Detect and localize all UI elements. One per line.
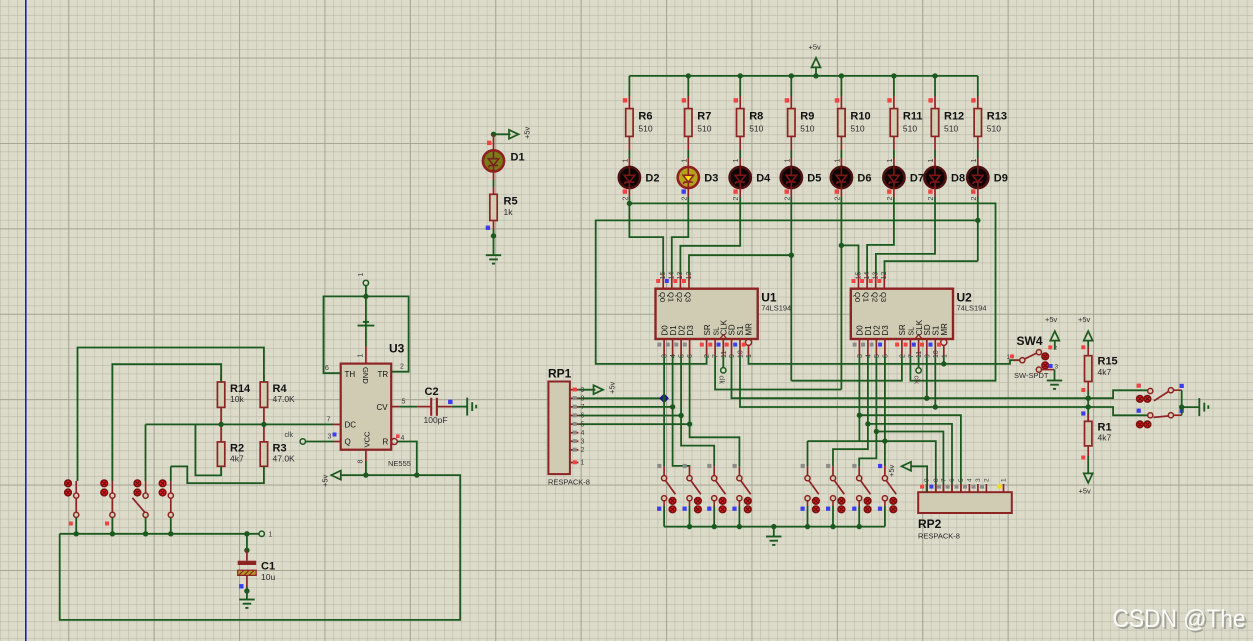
U1 pin label Q3 <box>684 292 693 302</box>
resistor R1 4k7 <box>1085 421 1092 446</box>
U3 pin 4 marker <box>396 434 400 438</box>
svg-text:100pF: 100pF <box>424 415 448 425</box>
svg-text:7: 7 <box>941 478 948 482</box>
node 1 label (bus end) <box>269 532 273 539</box>
node clk (U1 pin 11) <box>721 368 726 373</box>
wire SW4 to ground <box>1054 370 1056 381</box>
U1 pin 7 stub <box>714 339 716 356</box>
svg-text:D8: D8 <box>951 173 965 185</box>
R8 bottom lead <box>739 136 741 150</box>
junction node-1 bus x=76.2 <box>74 531 79 536</box>
U2 pin 14 stub <box>866 274 868 288</box>
D6 pin 2 label <box>834 197 841 201</box>
U2 pin 6 stub <box>884 339 886 356</box>
RP1 pin number 9 <box>581 387 585 394</box>
D9 pin 1 label <box>971 159 978 163</box>
switch SW-L3 wire to bus <box>145 518 147 534</box>
U3 Q pin stub <box>334 441 341 443</box>
U2 pin 10 stub <box>934 339 936 356</box>
svg-text:+5v: +5v <box>1045 315 1058 324</box>
wire bus to R8 <box>739 76 741 96</box>
RP1 pin 6 marker <box>573 413 577 417</box>
R7 bottom lead <box>687 136 689 150</box>
SW4 throw 3 lead <box>1039 369 1055 371</box>
D8 pin 1 label <box>928 159 935 163</box>
switch SW-A3 contact a <box>719 498 726 505</box>
junction D6 net <box>839 243 844 248</box>
D6 pin marker <box>835 189 839 193</box>
D1 label <box>511 152 525 164</box>
junction TH TR node <box>363 294 368 299</box>
IC U2 74LS194 body <box>851 289 953 339</box>
clk net label (U1) <box>717 376 724 385</box>
switch SW-B3 pole <box>857 476 862 481</box>
U3 pin number 3 <box>328 434 332 441</box>
power terminal +5v (below R1) <box>1084 473 1093 483</box>
D3 cathode stub <box>687 188 689 197</box>
wire R pin to +5v rail <box>397 442 417 476</box>
svg-text:3: 3 <box>975 478 982 482</box>
wire branch to switch SW-B1 <box>807 441 809 466</box>
U1 pin 12 stub <box>688 274 690 288</box>
U1 pin 15 stub <box>662 274 664 288</box>
U1 pin 14 stub <box>671 274 673 288</box>
svg-text:VCC: VCC <box>362 431 371 448</box>
wire U1 CLK stub <box>722 356 724 368</box>
svg-text:D7: D7 <box>910 173 924 185</box>
svg-text:2: 2 <box>733 197 740 201</box>
switch SW-B4 pole <box>882 476 887 481</box>
switch SW-A3 pole <box>712 476 717 481</box>
svg-text:4: 4 <box>670 354 677 358</box>
svg-text:R13: R13 <box>987 111 1007 123</box>
wire D8 to U2 pin 13 <box>876 197 935 274</box>
ground symbol (C1) <box>239 600 255 608</box>
U2 pin label MR <box>940 323 949 336</box>
svg-text:D3: D3 <box>704 173 718 185</box>
junction R4-R3 node on DC wire <box>261 422 266 427</box>
+5v label (SW4) <box>1045 315 1058 324</box>
D7 pin marker <box>887 189 891 193</box>
switch SW-C2 throw <box>1168 413 1173 418</box>
wire bus to R13 <box>977 76 979 96</box>
svg-text:7: 7 <box>327 417 331 424</box>
U3 pin label GND (rotated) <box>361 367 370 384</box>
svg-text:9: 9 <box>729 354 736 358</box>
U1 pin 9 marker <box>725 343 729 347</box>
U1 pin 6 stub <box>689 339 691 356</box>
wire D2 to U1 pin 15 <box>629 203 663 274</box>
wire top +5v bus <box>629 75 977 77</box>
U1 pin 1 marker <box>742 343 746 347</box>
wire node to TH pin 6 <box>324 296 366 373</box>
D9 pin 2 label <box>971 197 978 201</box>
switch SW-B1 throw <box>805 496 810 501</box>
R9 value 510 <box>800 124 814 134</box>
D6 label <box>857 173 871 185</box>
RP2 pin 1 stub <box>1003 484 1005 492</box>
RP1 pin 1 marker <box>573 460 577 464</box>
wire bus to ground stub <box>773 527 775 537</box>
wire R5 to ground <box>493 230 495 256</box>
switch SW-L4 throw <box>168 512 173 517</box>
svg-text:R11: R11 <box>903 111 923 123</box>
wire U2 SD stub <box>926 356 928 398</box>
switch SW-L2 pole <box>110 493 115 498</box>
U2 pin label D1 <box>864 325 873 336</box>
junction S1 at R1 <box>1086 404 1091 409</box>
RP1 part label RESPACK-8 <box>548 478 590 487</box>
switch SW-B1 top stub <box>807 466 809 476</box>
D3 pin 2 label <box>681 197 688 201</box>
U2 pin label D0 <box>856 325 865 336</box>
svg-text:R12: R12 <box>944 111 964 123</box>
svg-text:5: 5 <box>679 354 686 358</box>
svg-text:R8: R8 <box>749 111 763 123</box>
wire junction to output terminal <box>1182 406 1200 408</box>
wire D2 net to right side <box>629 203 995 380</box>
junction R14-R2 node on DC wire <box>218 422 223 427</box>
R4 label <box>273 383 288 395</box>
U1 pin 2 stub <box>706 339 708 356</box>
RP1 pin 2 marker <box>573 448 577 452</box>
power terminal +5v (RP2) <box>902 462 912 471</box>
switch SW-A4 bottom marker <box>732 507 736 511</box>
U2 pin 14 marker <box>860 279 864 283</box>
wire D9 to U2 pin 12 <box>885 261 978 274</box>
svg-text:6: 6 <box>325 365 329 372</box>
SW4 throw circle <box>1036 350 1041 355</box>
U1 pin 13 stub <box>679 274 681 288</box>
svg-text:D3: D3 <box>881 325 890 336</box>
svg-text:74LS194: 74LS194 <box>761 304 791 313</box>
switch SW-C1 contact a <box>1137 396 1144 403</box>
U3 pin number 5 <box>402 399 406 406</box>
U1 pin label Q1 <box>666 292 675 302</box>
R1 value 4k7 <box>1098 433 1112 443</box>
svg-text:8: 8 <box>933 478 940 482</box>
D5 pin 1 label <box>784 159 791 163</box>
U2 pin number 11 <box>916 351 923 358</box>
R10 bottom lead <box>840 136 842 150</box>
switch SW-L2 marker <box>105 522 109 526</box>
wire U1 D0 to switch SW-A1 <box>663 356 665 466</box>
U3 pin number 7 <box>327 417 331 424</box>
svg-text:1k: 1k <box>504 207 514 217</box>
U2 pin 2 marker <box>895 343 899 347</box>
switch SW-L4 contact b <box>159 489 166 496</box>
wire +5v to RP2 pin 9 <box>911 466 927 492</box>
RP2 pin 5 marker <box>955 485 959 489</box>
svg-text:1: 1 <box>971 159 978 163</box>
switch SW-L4 contact a <box>159 480 166 487</box>
RP2 part label RESPACK-8 <box>918 532 960 541</box>
svg-text:2: 2 <box>834 197 841 201</box>
LED D9 (red, off) <box>967 167 988 188</box>
U1 pin 12 marker <box>682 279 686 283</box>
RP1 label <box>548 367 572 381</box>
switch SW-A4 pole <box>737 476 742 481</box>
junction mid bus x=714.2 <box>712 524 717 529</box>
switch SW-A1 bottom marker <box>657 507 661 511</box>
wire U2 D1 to switch SW-B2 <box>833 424 868 466</box>
svg-text:510: 510 <box>697 124 711 134</box>
U2 pin 12 marker <box>877 279 881 283</box>
RP1 pin 8 marker <box>573 396 577 400</box>
wire U2 D1 vertical <box>867 356 869 424</box>
capacitor C1 plate top <box>238 561 257 565</box>
switch SW-B3 top pin marker <box>852 464 856 468</box>
junction U1 D3 net <box>687 421 692 426</box>
switch SW-B3 wire to bus <box>858 506 860 527</box>
SW4 part label SW-SPDT <box>1014 371 1049 380</box>
RP2 pin 4 stub <box>968 484 970 492</box>
switch SW-A1 bottom stub <box>663 501 665 506</box>
svg-text:+5v: +5v <box>608 381 617 394</box>
U1 pin 3 marker <box>657 343 661 347</box>
U2 pin 10 marker <box>929 343 933 347</box>
R6 top pin stub <box>628 96 630 109</box>
R13 label <box>987 111 1007 123</box>
R2 label <box>230 443 244 455</box>
D2 label <box>645 173 659 185</box>
R13 top pin stub <box>977 96 979 109</box>
LED D8 (red, off) <box>924 167 945 188</box>
U1 pin number 5 <box>679 354 686 358</box>
U2 pin number 13 <box>873 272 880 280</box>
D5 label <box>807 173 821 185</box>
U3 pin 1 stub <box>365 347 367 364</box>
svg-text:RESPACK-8: RESPACK-8 <box>918 532 960 541</box>
U1 pin number 1 <box>746 354 753 358</box>
R5 value 1k <box>504 207 514 217</box>
svg-text:2: 2 <box>704 354 711 358</box>
wire bus to R12 <box>934 76 936 96</box>
wire DC branch down to SW-L3 <box>145 424 147 481</box>
R9 pin marker <box>785 98 789 102</box>
U1 pin 9 stub <box>731 339 733 356</box>
U3 pin label R <box>383 438 389 447</box>
svg-text:1: 1 <box>733 159 740 163</box>
wire RP1 pin 9 to +5v <box>578 389 595 391</box>
svg-text:SW-SPDT: SW-SPDT <box>1014 371 1049 380</box>
R10 value 510 <box>850 124 864 134</box>
RP2 pin 4 marker <box>963 485 967 489</box>
switch SW-B4 lever <box>886 480 896 494</box>
U2 pin label Q2 <box>870 292 879 302</box>
wire D7 to U2 pin 14 <box>867 197 894 274</box>
D3 label <box>704 173 718 185</box>
power terminal +5v (D1) <box>509 130 519 139</box>
D8 cathode stub <box>934 188 936 197</box>
resistor R8 510 <box>737 109 744 137</box>
U2 label <box>957 291 973 305</box>
switch SW-L1 contact b <box>65 489 72 496</box>
RP2 pin 9 marker <box>920 485 924 489</box>
D2 cathode stub <box>628 188 630 197</box>
switch SW-A3 bottom stub <box>713 501 715 506</box>
switch SW-B3 throw <box>857 496 862 501</box>
svg-text:D4: D4 <box>756 173 771 185</box>
D5 pin marker <box>785 189 789 193</box>
svg-text:Q1: Q1 <box>862 292 871 302</box>
svg-text:clk: clk <box>913 376 920 385</box>
U2 pin 11 stub <box>918 339 920 356</box>
power terminal +5v (RP1) <box>594 385 604 394</box>
U1 pin number 11 <box>721 351 728 358</box>
switch SW-B3 contact a <box>864 498 871 505</box>
RP2 pin number 4 <box>967 478 974 482</box>
switch SW-C1 pole <box>1148 388 1153 393</box>
R5 label <box>504 196 518 208</box>
switch SW-L4 wire to bus <box>170 518 172 534</box>
D9 cathode stub <box>977 188 979 197</box>
wire RP1 pin 7 to U1 D1 <box>578 406 672 408</box>
svg-text:3: 3 <box>328 434 332 441</box>
switch SW-L1 marker <box>69 522 73 526</box>
svg-text:SR: SR <box>898 324 907 335</box>
U2 pin number 12 <box>881 272 888 280</box>
junction U1 D2 net <box>678 413 683 418</box>
svg-text:R7: R7 <box>697 111 711 123</box>
wire junction to R1 <box>1087 407 1089 421</box>
wire U2 D0 vertical <box>858 356 860 441</box>
RP1 pin 6 stub <box>570 415 579 417</box>
wire U2 CLK stub <box>918 356 920 368</box>
U2 pin 5 marker <box>870 343 874 347</box>
D6 anode stub <box>840 158 842 167</box>
switch SW-L4 pole <box>168 493 173 498</box>
U1 pin 4 stub <box>672 339 674 356</box>
U2 clock input caret <box>915 335 922 339</box>
switch SW-B4 bottom stub <box>884 501 886 506</box>
R12 pin marker <box>928 98 932 102</box>
R4 top lead <box>263 375 265 382</box>
switch SW-B4 throw <box>882 496 887 501</box>
switch SW-A4 contact a <box>745 498 752 505</box>
LED D4 (red, off) <box>730 167 751 188</box>
svg-text:2: 2 <box>899 354 906 358</box>
junction S1 at U2 pin 10 <box>933 404 938 409</box>
R4 value <box>273 394 296 404</box>
R3 top lead <box>263 424 265 442</box>
junction on +5v bus x=841.4 <box>839 73 844 78</box>
D3 pin 1 label <box>681 159 688 163</box>
switch SW-L2 contact a <box>101 480 108 487</box>
wire U1 SL to D6 net <box>715 356 841 389</box>
D6 pin 1 label <box>834 159 841 163</box>
junction VCC on rail <box>363 472 368 477</box>
svg-text:7: 7 <box>581 404 585 411</box>
U1 pin number 12 <box>686 272 693 280</box>
R11 top pin stub <box>893 96 895 109</box>
svg-text:11: 11 <box>916 351 923 358</box>
D8 pin marker <box>928 189 932 193</box>
watermark text <box>1113 605 1246 633</box>
switch SW-A3 contact b <box>719 506 726 513</box>
svg-text:R10: R10 <box>850 111 870 123</box>
R8 value 510 <box>749 124 763 134</box>
svg-text:R5: R5 <box>504 196 518 208</box>
junction U2 D1 net <box>865 421 870 426</box>
D9 label <box>994 173 1008 185</box>
RP2 label <box>918 517 942 531</box>
svg-text:2: 2 <box>681 197 688 201</box>
U1 pin 13 marker <box>673 279 677 283</box>
junction D9 net <box>975 218 980 223</box>
switch SW-B2 top stub <box>832 466 834 476</box>
svg-text:4k7: 4k7 <box>230 454 244 464</box>
D1 cathode stub <box>493 172 495 181</box>
R9 label <box>800 111 814 123</box>
resistor R5 1k <box>490 194 497 220</box>
RP2 pin number 7 <box>941 478 948 482</box>
SW4 lever <box>1025 353 1037 359</box>
svg-text:510: 510 <box>800 124 814 134</box>
R2 value <box>230 454 244 464</box>
switch SW-A2 top pin marker <box>683 464 687 468</box>
svg-text:R9: R9 <box>800 111 814 123</box>
svg-text:D3: D3 <box>686 325 695 336</box>
RP2 pin 2 marker <box>980 485 984 489</box>
switch SW-B3 lever <box>860 480 870 494</box>
switch SW-L1 top stub <box>75 481 77 493</box>
junction mid bus x=807.5 <box>805 524 810 529</box>
wire SW-C1 to junction <box>1181 390 1183 407</box>
switch SW-A1 contact a <box>669 498 676 505</box>
svg-text:1: 1 <box>358 354 365 358</box>
wire U2 D0 to RP2 pin 5 <box>859 415 961 492</box>
switch SW-A1 top pin marker <box>657 464 661 468</box>
svg-text:RP1: RP1 <box>548 367 572 381</box>
R5 bottom pin marker <box>486 226 490 230</box>
switch SW-L2 top stub <box>111 481 113 493</box>
U1 pin number 10 <box>738 350 745 358</box>
junction C1 top <box>244 548 249 553</box>
switch SW-L3 pole <box>143 493 148 498</box>
R3 value <box>273 454 296 464</box>
svg-text:CSDN @The: CSDN @The <box>1113 605 1246 633</box>
wire MR net U1 to SW4 <box>749 356 1020 364</box>
RP1 pin 3 stub <box>570 440 579 442</box>
power terminal +5v (top) <box>812 58 821 68</box>
D8 label <box>951 173 965 185</box>
LED D6 (red, off) <box>831 167 852 188</box>
RP1 pin number 5 <box>581 421 585 428</box>
U3 pin label Q <box>345 438 351 447</box>
switch SW-A3 top stub <box>713 466 715 476</box>
power terminal +5v (555 rail) <box>331 471 341 480</box>
svg-text:RP2: RP2 <box>918 517 942 531</box>
wire middle ground bus <box>664 526 885 528</box>
R10 label <box>850 111 870 123</box>
svg-text:TH: TH <box>345 370 356 379</box>
switch SW-B1 lever <box>809 480 819 494</box>
U1 label <box>761 291 777 305</box>
D6 cathode stub <box>840 188 842 197</box>
wire R13 to D9 <box>977 150 979 158</box>
switch SW-B3 bottom stub <box>858 501 860 506</box>
switch SW-A4 top pin marker <box>733 464 737 468</box>
switch SW-A1 wire to bus <box>663 506 665 527</box>
LED D7 (red, off) <box>883 167 904 188</box>
U3 R pin inversion bubble <box>391 439 397 445</box>
capacitor C2 plates <box>431 398 437 416</box>
svg-text:7: 7 <box>908 354 915 358</box>
switch SW-A4 contact b <box>745 506 752 513</box>
power terminal +5v (R15) <box>1084 331 1093 341</box>
switch SW-A1 top stub <box>663 466 665 476</box>
